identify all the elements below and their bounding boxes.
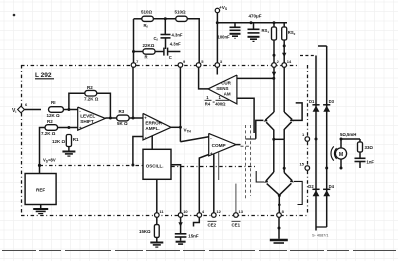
svg-text:15nF: 15nF: [188, 234, 199, 239]
svg-text:4.3nF: 4.3nF: [172, 33, 183, 38]
svg-text:AM: AM: [224, 92, 231, 97]
svg-text:S- 4687/1: S- 4687/1: [312, 234, 328, 238]
svg-text:13: 13: [239, 209, 244, 214]
svg-text:400Ω: 400Ω: [215, 101, 226, 106]
svg-text:14: 14: [287, 59, 292, 64]
svg-text:15: 15: [300, 162, 305, 167]
svg-text:R3: R3: [119, 109, 125, 114]
svg-text:100nF: 100nF: [218, 35, 231, 40]
svg-text:D4: D4: [329, 184, 335, 189]
svg-text:REF: REF: [36, 188, 45, 193]
svg-text:7.2K Ω: 7.2K Ω: [41, 131, 56, 136]
svg-text:OSCILL.: OSCILL.: [146, 164, 164, 169]
svg-text:L 292: L 292: [35, 72, 52, 79]
svg-text:AMPL.: AMPL.: [145, 126, 159, 131]
svg-text:CUR: CUR: [221, 81, 231, 86]
svg-text:10: 10: [183, 209, 188, 214]
svg-text:22KΩ: 22KΩ: [143, 43, 155, 48]
svg-text:D1: D1: [309, 99, 315, 104]
svg-text:4.3nF: 4.3nF: [170, 42, 181, 47]
svg-text:12K Ω: 12K Ω: [47, 113, 61, 118]
svg-text:15KΩ: 15KΩ: [139, 229, 151, 234]
svg-text:C: C: [169, 55, 172, 60]
svg-text:470μF: 470μF: [249, 14, 262, 19]
svg-text:R4: R4: [205, 101, 211, 106]
svg-text:5Ω,5mH: 5Ω,5mH: [340, 132, 356, 137]
svg-text:R2: R2: [87, 85, 93, 90]
svg-text:R2: R2: [47, 119, 53, 124]
svg-text:D3: D3: [329, 99, 335, 104]
svg-text:33Ω: 33Ω: [365, 145, 374, 150]
svg-text:510Ω: 510Ω: [141, 10, 153, 15]
svg-text:7.2K Ω: 7.2K Ω: [84, 97, 99, 102]
svg-text:R1: R1: [73, 137, 79, 142]
svg-text:CE2: CE2: [208, 223, 217, 228]
svg-text:12K Ω: 12K Ω: [52, 139, 66, 144]
svg-text:RI: RI: [51, 100, 56, 105]
svg-text:SENS: SENS: [216, 86, 228, 91]
svg-text:+: +: [79, 125, 82, 130]
svg-text:COMP: COMP: [212, 143, 226, 148]
svg-text:5K Ω: 5K Ω: [117, 121, 128, 126]
svg-text:510Ω: 510Ω: [175, 10, 187, 15]
svg-text:R: R: [145, 55, 148, 60]
svg-text:M: M: [339, 152, 343, 158]
svg-text:D2: D2: [308, 184, 314, 189]
svg-text:CE1: CE1: [232, 223, 241, 228]
svg-text:1nF: 1nF: [367, 160, 375, 165]
svg-text:12: 12: [216, 209, 221, 214]
svg-text:LEVEL: LEVEL: [80, 113, 95, 118]
svg-text:ERROR: ERROR: [145, 120, 162, 125]
svg-text:SHIFT: SHIFT: [80, 119, 94, 124]
